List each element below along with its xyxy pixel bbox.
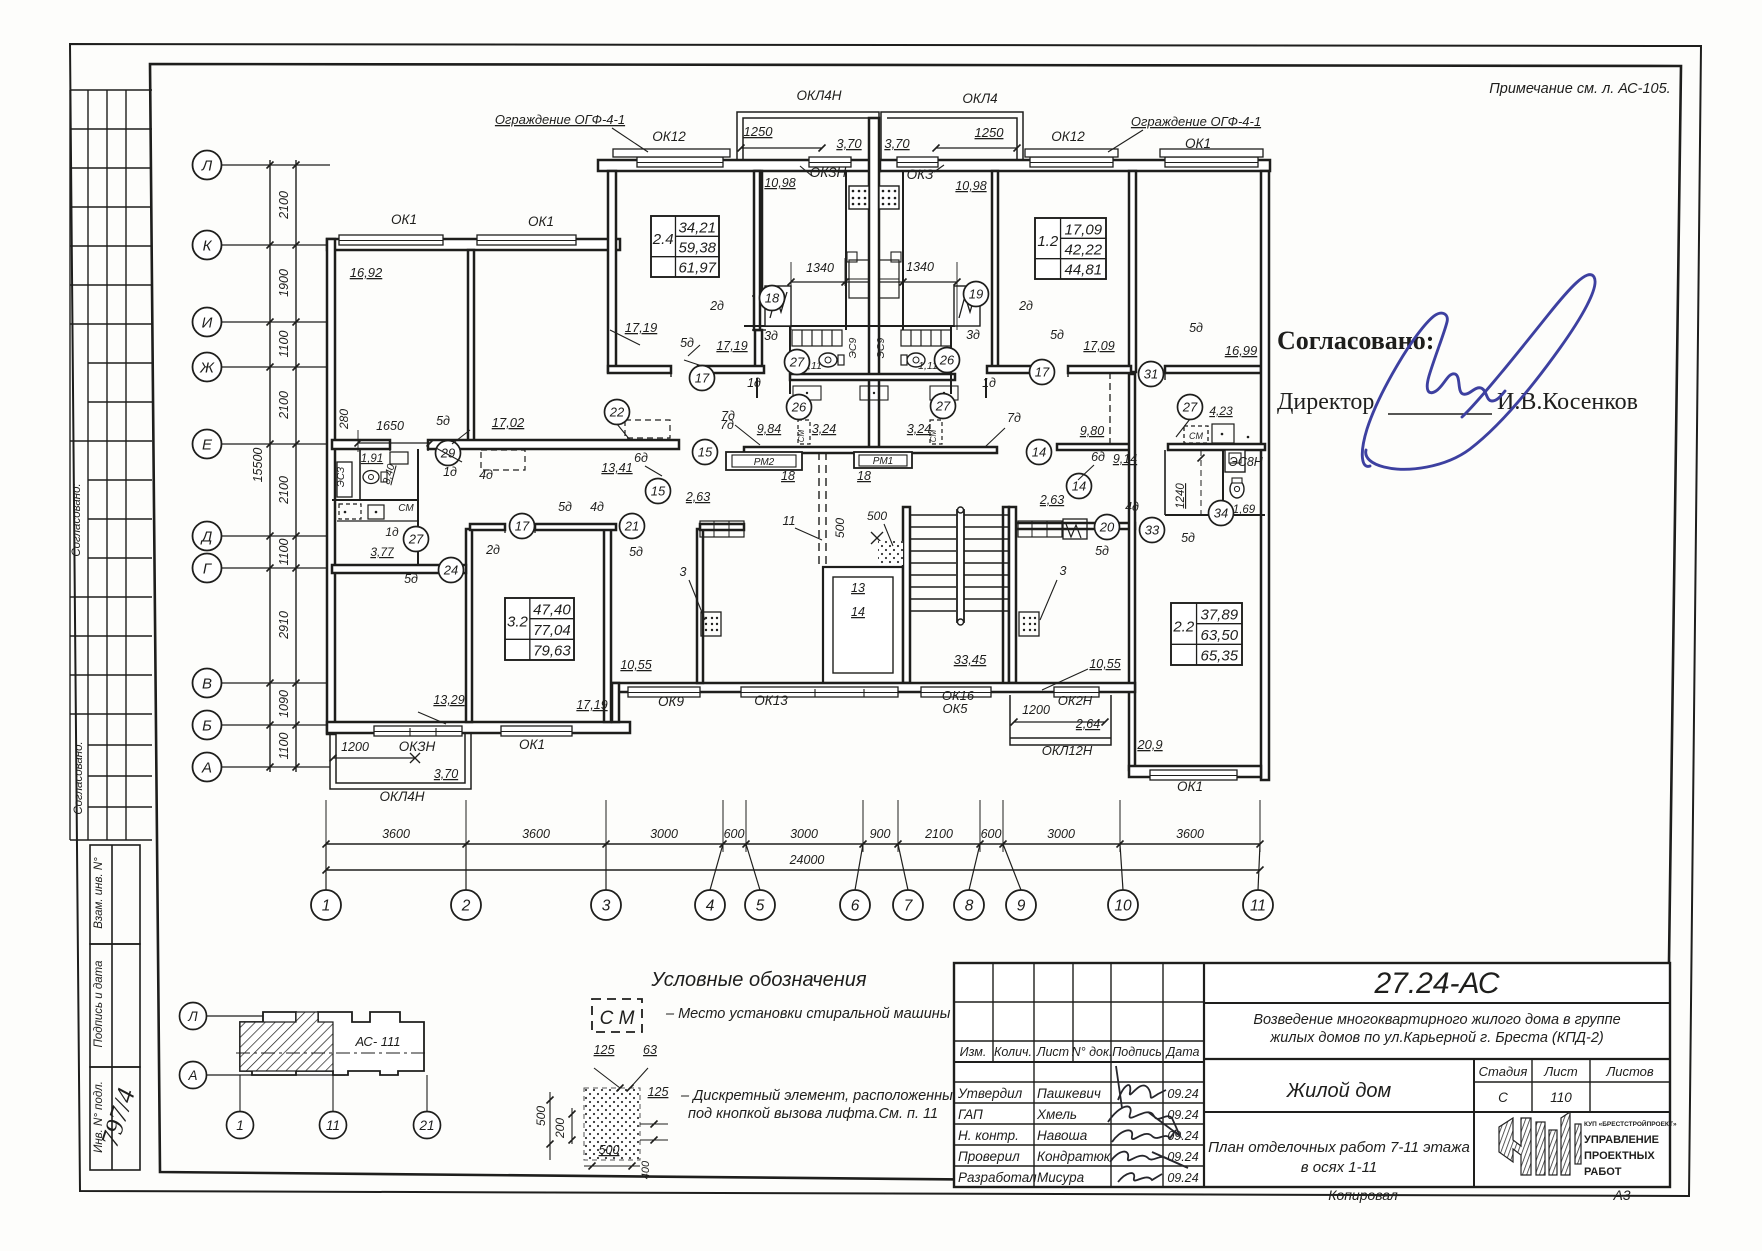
svg-text:А: А bbox=[201, 760, 212, 777]
axis 5 extension and circle bbox=[743, 841, 750, 848]
leader lines bbox=[612, 128, 648, 152]
dashed opening left corridor bbox=[481, 450, 525, 470]
axis Г circle bbox=[193, 554, 222, 583]
kitchen right-of-stairs fixtures bbox=[1018, 521, 1062, 537]
logo building glyph bbox=[1499, 1112, 1581, 1175]
svg-text:280: 280 bbox=[337, 409, 351, 430]
SM box left center bbox=[798, 420, 810, 444]
title block frame bbox=[954, 963, 1670, 1187]
svg-text:В: В bbox=[202, 676, 212, 693]
axis Л circle bbox=[193, 151, 222, 180]
svg-text:18: 18 bbox=[857, 469, 871, 483]
svg-text:34: 34 bbox=[1214, 506, 1228, 521]
svg-text:2910: 2910 bbox=[277, 611, 291, 640]
svg-text:125: 125 bbox=[594, 1043, 615, 1057]
svg-text:5д: 5д bbox=[1095, 544, 1109, 558]
axis 3 extension and circle bbox=[603, 841, 610, 848]
svg-text:5д: 5д bbox=[404, 572, 418, 586]
svg-text:План отделочных работ 7-11 эта: План отделочных работ 7-11 этажа bbox=[1208, 1139, 1470, 1156]
svg-text:14: 14 bbox=[1032, 445, 1046, 460]
zigzag cupboard right bbox=[954, 286, 980, 326]
left-wing lower-center kitchen wall bbox=[697, 529, 703, 683]
svg-text:2100: 2100 bbox=[924, 827, 953, 841]
svg-text:К: К bbox=[203, 238, 213, 255]
svg-text:Л: Л bbox=[201, 158, 213, 175]
dim 1650 left-wing bbox=[358, 442, 430, 444]
toilet left bbox=[819, 353, 837, 367]
svg-text:Возведение многоквартирного жи: Возведение многоквартирного жилого дома … bbox=[1253, 1012, 1620, 1028]
window OK9 bbox=[628, 687, 700, 697]
railing over OK12 left bbox=[613, 149, 730, 157]
svg-text:Лист: Лист bbox=[1543, 1064, 1578, 1079]
svg-text:63: 63 bbox=[643, 1043, 657, 1057]
legend SM dashed box bbox=[592, 999, 642, 1032]
svg-text:ОК5: ОК5 bbox=[942, 701, 968, 716]
svg-text:ОКЛ4Н: ОКЛ4Н bbox=[797, 88, 842, 103]
svg-text:21: 21 bbox=[624, 519, 639, 534]
svg-text:3,70: 3,70 bbox=[884, 136, 910, 151]
svg-text:Примечание см. л. АС-105.: Примечание см. л. АС-105. bbox=[1489, 81, 1670, 97]
svg-text:10,98: 10,98 bbox=[764, 176, 795, 190]
svg-text:в осях 1-11: в осях 1-11 bbox=[1301, 1159, 1377, 1176]
svg-text:8: 8 bbox=[965, 898, 974, 915]
svg-text:Ж: Ж bbox=[199, 360, 215, 377]
axis Д circle bbox=[193, 522, 222, 551]
svg-text:18: 18 bbox=[765, 291, 780, 306]
left wing ESZ sink box bbox=[337, 462, 352, 497]
axis 4 extension and circle bbox=[720, 841, 727, 848]
svg-text:17,19: 17,19 bbox=[625, 320, 658, 335]
room 1.2 west wall bbox=[992, 171, 998, 372]
center core party wall bbox=[869, 118, 879, 452]
svg-text:СМ: СМ bbox=[797, 429, 806, 442]
tower west wall bbox=[608, 171, 616, 372]
drawing frame bbox=[150, 64, 1681, 1186]
axis 9 extension and circle bbox=[1000, 841, 1007, 848]
svg-text:13,29: 13,29 bbox=[433, 693, 464, 707]
svg-text:С М: С М bbox=[600, 1008, 635, 1029]
svg-text:Ограждение ОГФ-4-1: Ограждение ОГФ-4-1 bbox=[495, 112, 625, 127]
dim 280 rot bbox=[357, 400, 359, 440]
window OK1 left-wing a bbox=[339, 235, 443, 245]
dashed corridor lines center bbox=[818, 452, 820, 568]
svg-text:1: 1 bbox=[322, 898, 331, 915]
corridor wall left y524 bbox=[700, 524, 744, 530]
svg-text:ОК1: ОК1 bbox=[519, 737, 545, 752]
stair flights bbox=[911, 515, 1008, 611]
svg-text:15500: 15500 bbox=[251, 448, 265, 483]
svg-text:3600: 3600 bbox=[382, 827, 410, 841]
svg-text:400: 400 bbox=[640, 1160, 652, 1179]
svg-text:А: А bbox=[187, 1068, 197, 1083]
svg-text:10,55: 10,55 bbox=[1089, 657, 1120, 671]
svg-text:21: 21 bbox=[418, 1118, 434, 1133]
svg-text:1д: 1д bbox=[747, 376, 761, 390]
svg-text:2: 2 bbox=[461, 898, 471, 915]
svg-text:44,81: 44,81 bbox=[1065, 262, 1103, 279]
dim 1200 right bbox=[1014, 721, 1105, 723]
window OK12 right bbox=[1030, 157, 1113, 167]
svg-text:1240: 1240 bbox=[1175, 483, 1187, 509]
window OKZN bottom bbox=[374, 726, 462, 736]
wall under rooms 17.19 axis Zh bbox=[608, 366, 671, 373]
svg-text:СМ: СМ bbox=[398, 503, 414, 514]
svg-text:10,98: 10,98 bbox=[955, 179, 986, 193]
right bathroom ESV8N sink bbox=[1225, 450, 1245, 472]
svg-text:3,77: 3,77 bbox=[370, 545, 395, 559]
svg-text:Жилой дом: Жилой дом bbox=[1286, 1080, 1392, 1102]
svg-text:3,24: 3,24 bbox=[812, 422, 836, 436]
svg-text:ОКЗН: ОКЗН bbox=[810, 165, 847, 180]
svg-text:ОКЛ4: ОКЛ4 bbox=[962, 91, 997, 106]
axis 7 extension and circle bbox=[895, 841, 902, 848]
railing over OK1 right bbox=[1160, 149, 1263, 157]
svg-text:Хмель: Хмель bbox=[1036, 1107, 1077, 1122]
svg-text:Разработал: Разработал bbox=[958, 1170, 1037, 1185]
svg-text:1200: 1200 bbox=[341, 740, 369, 754]
svg-text:2,63: 2,63 bbox=[685, 490, 710, 504]
window OK1 bottom left-wing bbox=[501, 726, 572, 736]
key plan hatched half bbox=[240, 1012, 333, 1071]
svg-text:Условные обозначения: Условные обозначения bbox=[650, 969, 867, 991]
svg-text:Проверил: Проверил bbox=[958, 1149, 1020, 1164]
svg-text:КУП «БРЕСТСТРОЙПРОЕКТ»: КУП «БРЕСТСТРОЙПРОЕКТ» bbox=[1584, 1119, 1677, 1128]
blue director signature bbox=[1362, 275, 1595, 470]
svg-text:20: 20 bbox=[1099, 520, 1115, 535]
svg-text:1250: 1250 bbox=[744, 124, 774, 139]
svg-text:Дата: Дата bbox=[1165, 1045, 1200, 1059]
dim 1340 left bbox=[791, 281, 869, 283]
svg-text:Л: Л bbox=[187, 1009, 198, 1024]
svg-text:10,55: 10,55 bbox=[620, 658, 651, 672]
svg-text:ОК1: ОК1 bbox=[1185, 136, 1211, 151]
svg-text:3600: 3600 bbox=[522, 827, 550, 841]
svg-text:600: 600 bbox=[724, 827, 745, 841]
svg-text:5д: 5д bbox=[1181, 531, 1195, 545]
svg-text:ОК9: ОК9 bbox=[658, 694, 684, 709]
kitchen counters center bbox=[849, 260, 869, 298]
svg-text:1д: 1д bbox=[443, 465, 457, 479]
window OK1 right wing top bbox=[1165, 157, 1258, 167]
bath door jamb stubs bbox=[756, 378, 758, 398]
svg-text:13,41: 13,41 bbox=[601, 461, 632, 475]
svg-text:3.2: 3.2 bbox=[507, 614, 529, 631]
svg-text:27: 27 bbox=[1182, 400, 1198, 415]
left wing top exterior wall bbox=[327, 239, 620, 250]
svg-text:1090: 1090 bbox=[277, 690, 291, 718]
svg-text:4д: 4д bbox=[590, 500, 604, 514]
svg-text:22: 22 bbox=[609, 405, 625, 420]
svg-text:500: 500 bbox=[599, 1143, 620, 1157]
svg-text:ОК13: ОК13 bbox=[754, 693, 788, 708]
svg-text:Е: Е bbox=[202, 437, 213, 454]
kitchen right of stairs west wall bbox=[1003, 507, 1009, 687]
room 1.2 east wall bbox=[1129, 171, 1136, 372]
svg-text:34,21: 34,21 bbox=[678, 219, 716, 236]
svg-text:ЭС9: ЭС9 bbox=[847, 337, 859, 358]
svg-text:ОК1: ОК1 bbox=[1177, 779, 1203, 794]
svg-text:27: 27 bbox=[935, 399, 951, 414]
window OK16 OK5 bbox=[921, 687, 991, 697]
corridor wall center y447 bbox=[744, 447, 997, 453]
svg-text:ЭСЗ: ЭСЗ bbox=[336, 467, 347, 487]
svg-text:29: 29 bbox=[440, 446, 455, 461]
bottom dimension chain bbox=[326, 843, 1260, 845]
key plan axis А circle bbox=[180, 1062, 207, 1089]
svg-text:500: 500 bbox=[867, 509, 887, 523]
window OKZN kitchen bbox=[809, 157, 851, 167]
railing over OK12 right bbox=[1025, 149, 1118, 157]
axis 1 extension and circle bbox=[323, 841, 330, 848]
svg-text:2.4: 2.4 bbox=[652, 231, 674, 248]
svg-text:3,70: 3,70 bbox=[434, 767, 458, 781]
svg-text:9,84: 9,84 bbox=[757, 422, 781, 436]
svg-text:27: 27 bbox=[408, 532, 424, 547]
svg-text:ОК12: ОК12 bbox=[1051, 129, 1085, 144]
svg-text:– Место установки стиральной м: – Место установки стиральной машины bbox=[665, 1006, 951, 1022]
corridor wall right y444 bbox=[1057, 444, 1132, 450]
svg-text:ОКЛ12Н: ОКЛ12Н bbox=[1042, 743, 1093, 758]
bath block top wall center bbox=[744, 325, 955, 327]
svg-text:5д: 5д bbox=[629, 545, 643, 559]
svg-text:И: И bbox=[202, 315, 213, 332]
key plan bottom circles bbox=[227, 1112, 254, 1139]
svg-text:1100: 1100 bbox=[277, 331, 291, 358]
svg-text:900: 900 bbox=[870, 827, 891, 841]
svg-text:79,63: 79,63 bbox=[533, 643, 571, 660]
right wing bottom wall bbox=[1129, 766, 1261, 777]
axis 6 extension and circle bbox=[860, 841, 867, 848]
svg-text:500: 500 bbox=[833, 518, 847, 538]
svg-text:65,35: 65,35 bbox=[1201, 648, 1239, 665]
svg-text:Листов: Листов bbox=[1605, 1064, 1654, 1079]
axis E corridor wall left-wing bbox=[332, 440, 390, 449]
axis 2 extension and circle bbox=[463, 841, 470, 848]
tile band right bath bbox=[901, 330, 951, 346]
legend discrete element dotted square bbox=[584, 1088, 640, 1160]
svg-text:17,02: 17,02 bbox=[492, 415, 525, 430]
window OK2N bbox=[1054, 687, 1099, 697]
svg-text:500: 500 bbox=[534, 1106, 548, 1126]
bathroom right block walls bbox=[1222, 450, 1224, 520]
svg-text:10: 10 bbox=[1114, 898, 1132, 915]
window OK13 bbox=[741, 687, 898, 697]
svg-text:2д: 2д bbox=[709, 299, 724, 313]
dim 1250 right bbox=[936, 147, 1017, 149]
bottom wall center section axis V bbox=[612, 683, 1135, 692]
svg-text:Утвердил: Утвердил bbox=[957, 1086, 1023, 1101]
svg-text:1100: 1100 bbox=[277, 733, 291, 760]
svg-text:17: 17 bbox=[515, 519, 530, 534]
svg-text:2100: 2100 bbox=[277, 191, 291, 220]
left wing bathroom fixtures bbox=[363, 471, 379, 484]
step wall between wings bbox=[612, 683, 619, 722]
axis А circle bbox=[193, 753, 222, 782]
svg-text:42,22: 42,22 bbox=[1065, 242, 1103, 259]
svg-text:1д: 1д bbox=[982, 376, 996, 390]
SM box right center bbox=[930, 420, 942, 444]
fridge symbols near 1340 bbox=[847, 252, 857, 262]
svg-text:9,80: 9,80 bbox=[1080, 424, 1104, 438]
svg-text:18: 18 bbox=[781, 469, 795, 483]
svg-text:3: 3 bbox=[680, 565, 687, 579]
svg-text:Пашкевич: Пашкевич bbox=[1037, 1086, 1101, 1101]
window OK12 left bbox=[637, 157, 723, 167]
svg-text:1.2: 1.2 bbox=[1037, 233, 1059, 250]
svg-text:3000: 3000 bbox=[650, 827, 678, 841]
svg-text:1: 1 bbox=[236, 1118, 244, 1133]
svg-text:Согласовано:: Согласовано: bbox=[1277, 326, 1434, 355]
svg-text:77,04: 77,04 bbox=[533, 622, 571, 639]
svg-text:110: 110 bbox=[1550, 1090, 1572, 1105]
zigzag cupboard left bbox=[765, 286, 791, 326]
key plan axis dash-dot line bbox=[236, 1052, 428, 1054]
svg-text:5д: 5д bbox=[436, 414, 450, 428]
svg-text:Колич.: Колич. bbox=[994, 1045, 1032, 1059]
svg-text:33,45: 33,45 bbox=[954, 652, 987, 667]
center-left tower top wall bbox=[598, 160, 880, 171]
svg-text:63,50: 63,50 bbox=[1201, 627, 1239, 644]
svg-text:Д: Д bbox=[200, 529, 213, 546]
svg-text:Навоша: Навоша bbox=[1037, 1128, 1088, 1143]
svg-text:16,92: 16,92 bbox=[350, 265, 383, 280]
balcony OKL4 top-right bbox=[881, 112, 1023, 160]
svg-text:2.2: 2.2 bbox=[1172, 619, 1195, 636]
PM1 electric panel bbox=[854, 452, 912, 468]
dashed box left of axis22 bbox=[625, 420, 670, 438]
svg-text:24: 24 bbox=[443, 563, 458, 578]
svg-text:5д: 5д bbox=[1189, 321, 1203, 335]
svg-text:9,14: 9,14 bbox=[1113, 452, 1137, 466]
washbasin boxes below baths bbox=[793, 386, 821, 400]
kitchen west wall left bbox=[845, 171, 847, 330]
svg-text:09.24: 09.24 bbox=[1167, 1171, 1198, 1185]
stove left kitchen bbox=[849, 186, 869, 209]
dim 1250 left bbox=[741, 147, 822, 149]
svg-text:Н. контр.: Н. контр. bbox=[958, 1128, 1019, 1143]
svg-text:20,9: 20,9 bbox=[1136, 737, 1162, 752]
svg-text:РМ1: РМ1 bbox=[873, 456, 893, 467]
svg-text:4д: 4д bbox=[479, 468, 493, 482]
svg-text:СМ: СМ bbox=[1189, 431, 1203, 441]
dim 1240 right bath bbox=[1200, 450, 1202, 520]
svg-text:С: С bbox=[1498, 1090, 1508, 1105]
stair west wall bbox=[903, 507, 910, 683]
svg-text:26: 26 bbox=[791, 400, 807, 415]
svg-text:1900: 1900 bbox=[277, 269, 291, 297]
svg-text:2,64: 2,64 bbox=[1075, 717, 1100, 731]
svg-text:5д: 5д bbox=[1050, 328, 1064, 342]
svg-text:3000: 3000 bbox=[1047, 827, 1075, 841]
svg-text:Взам. инв. N°: Взам. инв. N° bbox=[93, 857, 105, 929]
apartment table 2.4 bbox=[651, 216, 719, 277]
axis Ж circle bbox=[193, 353, 222, 382]
apartment table 1.2 bbox=[1035, 218, 1106, 279]
svg-text:1100: 1100 bbox=[277, 539, 291, 566]
svg-text:33: 33 bbox=[1145, 523, 1160, 538]
interior wall left-wing divider lower bbox=[466, 529, 472, 722]
svg-text:Ограждение ОГФ-4-1: Ограждение ОГФ-4-1 bbox=[1131, 114, 1261, 129]
svg-text:5д: 5д bbox=[558, 500, 572, 514]
kitchen east wall right bbox=[902, 171, 904, 330]
axis 8 extension and circle bbox=[977, 841, 984, 848]
svg-text:1200: 1200 bbox=[1022, 703, 1050, 717]
svg-text:ОК2Н: ОК2Н bbox=[1058, 693, 1093, 708]
left wing bottom exterior wall bbox=[327, 722, 630, 733]
kitchen room west wall left apartment bbox=[754, 171, 760, 330]
svg-text:11: 11 bbox=[1250, 898, 1266, 915]
center-right tower top wall bbox=[880, 160, 1270, 171]
wall under room 17.09 axis Zh right bbox=[987, 366, 1046, 373]
svg-text:Подпись и дата: Подпись и дата bbox=[93, 961, 105, 1048]
right bathroom toilet bbox=[1230, 480, 1244, 498]
bath partitions center bbox=[789, 326, 791, 380]
svg-text:7: 7 bbox=[904, 898, 914, 915]
svg-text:ОК1: ОК1 bbox=[528, 214, 554, 229]
kitchen window leaders bbox=[800, 166, 812, 176]
svg-text:15: 15 bbox=[651, 484, 666, 499]
svg-text:Согласовано:: Согласовано: bbox=[73, 741, 85, 814]
svg-text:47,40: 47,40 bbox=[533, 602, 571, 619]
svg-text:14: 14 bbox=[1072, 479, 1086, 494]
svg-text:31: 31 bbox=[1144, 367, 1158, 382]
svg-text:N° док.: N° док. bbox=[1072, 1045, 1113, 1059]
window OKZ kitchen bbox=[897, 157, 938, 167]
window OK1 left-wing b bbox=[477, 235, 576, 245]
svg-text:7д: 7д bbox=[721, 409, 735, 423]
left sidebar approval grid bbox=[70, 90, 152, 714]
svg-text:под кнопкой вызова лифта.См. п: под кнопкой вызова лифта.См. п. 11 bbox=[688, 1106, 938, 1122]
svg-text:ГАП: ГАП bbox=[958, 1107, 983, 1122]
svg-text:125: 125 bbox=[648, 1085, 669, 1099]
svg-text:6: 6 bbox=[851, 898, 860, 915]
left-wing lower corridor wall bbox=[470, 524, 505, 530]
svg-text:09.24: 09.24 bbox=[1167, 1087, 1198, 1101]
svg-text:жилых домов по ул.Карьерной г: жилых домов по ул.Карьерной г. Бреста (К… bbox=[1269, 1030, 1603, 1046]
svg-text:17,09: 17,09 bbox=[1083, 339, 1114, 353]
svg-text:4: 4 bbox=[706, 898, 715, 915]
left wing washer box bbox=[339, 504, 361, 519]
axis 10 extension and circle bbox=[1117, 841, 1124, 848]
room 34.21 east wall bbox=[755, 171, 762, 296]
svg-text:РАБОТ: РАБОТ bbox=[1584, 1166, 1622, 1178]
svg-text:Мисура: Мисура bbox=[1037, 1170, 1085, 1185]
axis В circle bbox=[193, 669, 222, 698]
svg-text:УПРАВЛЕНИЕ: УПРАВЛЕНИЕ bbox=[1584, 1134, 1659, 1146]
svg-text:9: 9 bbox=[1017, 898, 1026, 915]
svg-text:1д: 1д bbox=[385, 525, 399, 539]
interior wall left-wing rooms divider upper bbox=[468, 250, 474, 445]
signature underline bbox=[1388, 413, 1492, 415]
svg-text:ОКЗ: ОКЗ bbox=[907, 167, 934, 182]
svg-text:11: 11 bbox=[783, 514, 796, 528]
stair landing star mark bbox=[871, 532, 883, 544]
svg-text:ПРОЕКТНЫХ: ПРОЕКТНЫХ bbox=[1584, 1150, 1655, 1162]
elevator shaft bbox=[823, 567, 903, 683]
right bathroom basin bbox=[1212, 424, 1234, 443]
svg-text:15: 15 bbox=[698, 445, 713, 460]
svg-text:14: 14 bbox=[851, 605, 865, 619]
svg-text:3000: 3000 bbox=[790, 827, 818, 841]
svg-text:600: 600 bbox=[981, 827, 1002, 841]
svg-text:17,19: 17,19 bbox=[716, 339, 747, 353]
stove right kitchen bbox=[879, 186, 899, 209]
dim 1340 right bbox=[879, 281, 957, 283]
svg-text:24000: 24000 bbox=[789, 853, 825, 867]
svg-text:26: 26 bbox=[939, 353, 955, 368]
right wing east exterior wall bbox=[1261, 171, 1269, 780]
stair landing hatch bbox=[878, 541, 903, 565]
